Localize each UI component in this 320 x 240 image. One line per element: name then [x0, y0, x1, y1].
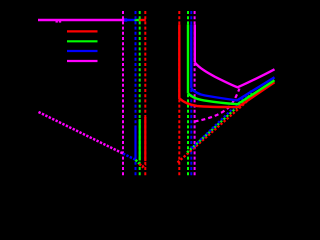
lower diagonal dotted red kink	[139, 164, 146, 167]
plateau marker bump 2	[59, 21, 61, 23]
plateau segment green	[135, 19, 141, 21]
lower diagonal dotted blue	[123, 154, 136, 161]
legend line green	[67, 40, 98, 42]
dotted rising line red	[178, 96, 254, 163]
lower diagonal dotted magenta	[39, 112, 124, 154]
dashed vertical green x=139.7	[139, 11, 141, 177]
legend line magenta	[67, 60, 98, 62]
dashed rising curve magenta	[195, 89, 240, 122]
upper curve green	[188, 80, 275, 104]
lower diagonal dotted green	[136, 160, 140, 164]
upper curve magenta	[195, 63, 275, 88]
upper curve red	[179, 82, 274, 107]
plateau segment magenta	[38, 19, 124, 21]
curve drop blue x=191.3	[190, 25, 192, 89]
dashed vertical red x=179.3	[178, 11, 180, 177]
solid drop segment blue x=135.5	[134, 126, 136, 158]
legend line red	[67, 30, 98, 32]
legend line blue	[67, 50, 98, 52]
dashed vertical magenta x=123	[122, 11, 124, 177]
plateau segment red	[139, 19, 146, 21]
curve drop green x=188	[187, 25, 189, 94]
upper curve blue	[191, 77, 274, 100]
dotted rising line blue	[192, 91, 252, 149]
dashed vertical blue x=191.3	[190, 11, 192, 177]
solid drop segment green x=139.7	[139, 119, 141, 161]
dashed vertical blue x=135.5	[135, 11, 137, 177]
dashed vertical red x=145.3	[144, 11, 146, 177]
curve drop red x=179.3	[178, 25, 180, 100]
plateau blue point marker	[124, 18, 127, 21]
dotted rising line green	[187, 94, 252, 153]
solid drop segment red x=145.3	[144, 117, 146, 161]
dashed vertical magenta x=195	[194, 11, 196, 177]
dashed vertical green x=188	[187, 11, 189, 177]
curve drop magenta x=195	[194, 25, 196, 63]
plateau segment blue	[122, 19, 137, 21]
plateau marker bump 1	[56, 21, 58, 23]
